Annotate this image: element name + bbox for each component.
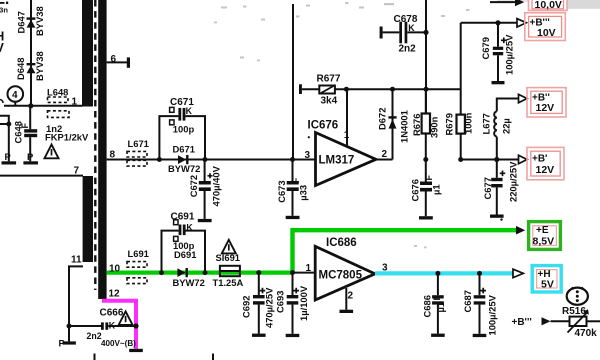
capacitor C671 loop [157,97,208,162]
svg-text:LM317: LM317 [319,155,355,167]
capacitor C691 loop [159,211,208,275]
svg-text:100n: 100n [463,112,474,134]
svg-text:FKP1/2kV: FKP1/2kV [45,131,89,142]
svg-text:MC7805: MC7805 [319,270,363,282]
svg-text:P: P [5,151,11,162]
svg-text:D691: D691 [174,249,196,260]
svg-text:K: K [109,321,116,331]
svg-text:1: 1 [306,263,312,274]
capacitor C687 [462,271,498,337]
bottom edge stub 2 [212,354,214,360]
warning triangle (C648) [45,145,59,159]
open arrow to +B''' 10V [517,19,526,27]
svg-text:1N4001: 1N4001 [399,110,410,143]
bus bar left segment A [82,0,93,107]
open arrow to +B'' 12V [519,94,528,102]
pin 6 stub [107,54,130,68]
svg-text:P: P [27,151,33,162]
capacitor C677 [482,160,518,218]
svg-text:8,5V: 8,5V [533,236,555,248]
svg-text:C693: C693 [275,291,286,313]
red box +B'' 12V [527,88,566,117]
svg-text:C677: C677 [482,177,493,199]
solid arrow to +E [516,226,525,235]
rail to +B' 12V [461,157,519,162]
svg-text:3k4: 3k4 [321,95,338,106]
diode D671 [168,143,200,174]
bus dashed separator line [94,0,96,290]
svg-text:470k: 470k [575,328,598,339]
small cut circle at left edge [0,100,3,104]
warning triangle (SI691) [222,240,236,254]
inductor L648 [47,87,69,118]
capacitor C648 [13,106,89,165]
svg-text:+E: +E [536,225,549,236]
svg-text:BYW72: BYW72 [168,163,200,174]
svg-text:12V: 12V [536,164,555,176]
svg-text:390n: 390n [429,116,440,138]
left edge partial scan marks [0,2,5,4]
svg-text:L691: L691 [128,248,149,259]
red box 10,0V (cut at top) [529,0,568,11]
svg-text:+Bʹ: +Bʹ [532,153,547,164]
node 1 wire [4,105,83,107]
diode D672 1N4001 [377,89,410,159]
warning triangle (C666) [119,311,133,325]
svg-text:T1.25A: T1.25A [213,277,244,288]
red box +B''' 10V [525,13,566,41]
svg-text:5V: 5V [541,279,554,291]
op-amp regulator IC676 [308,120,377,186]
svg-text:12: 12 [109,289,121,300]
svg-text:6: 6 [111,54,117,65]
resistor R677 [299,73,461,106]
vertical feed wire x=293 [292,4,294,160]
svg-text:10V: 10V [537,27,556,39]
svg-text:IC686: IC686 [326,237,357,249]
inductor L671 [127,138,149,166]
svg-text:3: 3 [305,150,311,161]
capacitor C678 [380,14,429,55]
svg-text:F: F [424,175,434,181]
svg-text:100µ/25V: 100µ/25V [487,294,498,335]
svg-text:470µ/25V: 470µ/25V [264,287,275,328]
junction dot green corner [290,270,295,275]
svg-text:470µ/40V: 470µ/40V [211,165,222,206]
svg-text:1: 1 [344,130,350,141]
svg-text:F: F [432,295,442,301]
capacitor C693 [275,273,310,337]
pin 1 wire IC686 [293,263,316,274]
terminal circle 4 [8,86,24,106]
bus bar left segment B [83,176,93,262]
svg-text:L648: L648 [47,87,68,98]
wire D647/D648 vertical [30,0,32,107]
svg-text:D648: D648 [15,58,26,80]
red box +B' 12V [527,147,564,179]
top cut wire + solid arrow [490,0,524,6]
svg-text:12V: 12V [536,102,555,114]
inductor L691 [127,248,149,284]
svg-text:L671: L671 [128,138,149,149]
capacitor C672 [188,160,222,223]
diode D647 [16,6,46,36]
small dark speck [500,218,502,220]
open arrow to +H [513,269,523,277]
svg-text:C692: C692 [241,296,252,318]
top feed wire to +B''' [461,20,517,25]
svg-text:C686: C686 [422,295,433,317]
capacitor C679 [480,23,515,85]
capacitor C673 [276,157,309,219]
svg-text:100µ/25V: 100µ/25V [504,34,515,75]
regulator IC686 [315,237,375,300]
svg-text:R516: R516 [562,306,586,317]
svg-text:C679: C679 [480,37,491,59]
svg-text:2n2: 2n2 [399,43,417,54]
svg-text:100p: 100p [173,124,195,135]
svg-text:C666: C666 [100,308,124,319]
resistor R679 [444,23,474,162]
svg-text:R677: R677 [317,73,341,84]
svg-text:IC676: IC676 [308,120,339,132]
svg-text:K: K [186,223,193,233]
inductor L677 [481,99,519,160]
svg-text:P: P [59,337,65,348]
svg-text:11: 11 [71,255,82,266]
vertical feed wire x=426 [425,0,427,114]
svg-text:V: V [0,41,5,55]
svg-text:D672: D672 [377,108,388,130]
svg-text:1µ/100V: 1µ/100V [298,285,309,321]
left edge stub wires to P ground [0,116,16,165]
cyan rail to +H [375,271,513,275]
svg-text:µ1: µ1 [431,184,442,195]
svg-text:+Bʹʹʹ: +Bʹʹʹ [512,317,532,328]
fuse SI691 [213,252,244,288]
resistor R676 [411,89,440,159]
pin 1 wire [344,89,350,147]
svg-text:10,0V: 10,0V [535,0,562,11]
capacitor C676 [409,157,441,220]
green rail from pin 10 [107,264,293,275]
svg-text:D647: D647 [16,11,27,33]
svg-text:K: K [408,23,415,33]
svg-text:µ1: µ1 [435,302,446,313]
open arrow to +B' 12V [519,155,528,163]
svg-text:F: F [291,177,301,183]
diode D691 [173,249,205,288]
svg-text:R679: R679 [444,113,455,135]
svg-text:L677: L677 [481,113,492,134]
svg-text:BYV38: BYV38 [34,6,45,36]
svg-text:F: F [20,123,30,129]
adjuster symbol above R516 [567,287,588,305]
node 12 magenta feed [102,289,143,352]
svg-text:D671: D671 [173,143,195,154]
node 8 rail [107,150,316,161]
grey scan band top right [568,0,600,9]
svg-text:2n2: 2n2 [87,331,102,341]
bottom edge stub [94,354,96,360]
svg-text:K: K [186,106,193,116]
green rail up-over to +E [293,230,517,272]
svg-text:400V~(B): 400V~(B) [101,339,136,348]
potentiometer R516 [562,306,600,339]
pin 2 wire [376,149,393,160]
cyan box +H 5V [532,266,561,292]
svg-text:43n: 43n [0,6,8,15]
node 11 wire [59,255,84,349]
+B''' feed to R516 [512,317,570,328]
svg-text:C676: C676 [409,179,420,201]
svg-text:1: 1 [72,97,78,108]
svg-text:22µ: 22µ [501,118,512,134]
svg-text:BYW72: BYW72 [173,277,205,288]
svg-text:R676: R676 [411,114,422,136]
capacitor C692 [241,270,275,337]
svg-text:10: 10 [109,264,121,275]
green box +E 8,5V [529,222,561,250]
svg-text:C673: C673 [276,180,287,202]
diode D648 [15,51,45,81]
svg-text:C672: C672 [188,175,199,197]
bus bar right [98,0,106,299]
svg-text:C687: C687 [462,290,473,312]
svg-text:2: 2 [348,291,354,302]
capacitor C666 [69,308,139,349]
scan smudges [214,2,470,248]
svg-text:220µ/25V: 220µ/25V [508,161,519,202]
capacitor C686 [422,271,447,337]
svg-text:BYV38: BYV38 [34,51,45,81]
svg-text:4: 4 [12,90,18,101]
junction dot [28,103,33,108]
svg-text:2: 2 [382,149,388,160]
pin 2 ground IC686 [340,288,354,313]
svg-text:µ33: µ33 [298,185,309,201]
node 7 wire [0,166,83,177]
